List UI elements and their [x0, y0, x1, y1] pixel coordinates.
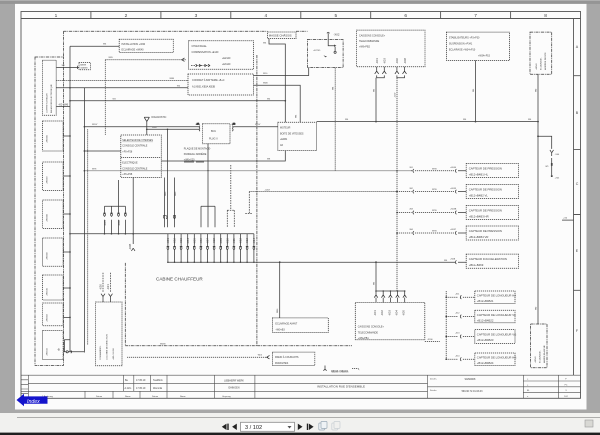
svg-text:A1.KB31.KB3A.KB3B: A1.KB31.KB3A.KB3B: [192, 86, 215, 89]
svg-text:COLONNE DE DIRECTION: COLONNE DE DIRECTION: [107, 334, 109, 360]
junction dots diagnostic: [146, 128, 168, 130]
svg-text:W7B: W7B: [432, 231, 437, 233]
svg-text:+W9+PB1: +W9+PB1: [358, 337, 370, 340]
svg-text:+E4B1: +E4B1: [280, 138, 288, 141]
svg-text:-X01: -X01: [373, 310, 377, 316]
svg-text:W7B: W7B: [432, 189, 437, 191]
svg-text:W0B: W0B: [263, 83, 268, 85]
svg-text:+W042: +W042: [535, 356, 537, 363]
main horizontal bus B: [317, 119, 538, 122]
caissons stub connectors: [374, 295, 406, 302]
box selecteur de vitesses: [121, 135, 162, 178]
connector bus upper: [70, 233, 254, 235]
svg-text:6: 6: [404, 13, 407, 19]
box chauffage-compensation +E140: [189, 41, 254, 70]
svg-text:TELECOMMANDE: TELECOMMANDE: [358, 331, 379, 334]
svg-text:AMBRE,BLANCHE: AMBRE,BLANCHE: [543, 345, 546, 363]
svg-text:CAPTEUR DE PRESSION: CAPTEUR DE PRESSION: [469, 229, 502, 233]
svg-text:INSTALLATION RUE D'ENSEMBLE: INSTALLATION RUE D'ENSEMBLE: [317, 385, 365, 389]
svg-text:-X02: -X02: [173, 238, 177, 244]
svg-text:Name: Name: [125, 396, 131, 398]
svg-text:CAPTEUR DE LONGUEUR VG: CAPTEUR DE LONGUEUR VG: [477, 333, 516, 337]
page number box: [241, 422, 295, 431]
svg-text:ECLAIRAGE-: ECLAIRAGE-: [540, 57, 543, 70]
svg-text:-X06: -X06: [395, 58, 399, 64]
svg-text:+W0409: +W0409: [47, 251, 49, 260]
next-page button: [298, 424, 303, 430]
wire W1B dashed: [56, 78, 188, 81]
svg-text:PARASITES: PARASITES: [275, 362, 289, 365]
svg-text:+W042: +W042: [536, 63, 538, 70]
region border: chassis top dash-dot bus: [64, 31, 308, 57]
svg-text:STABILISATEURS +P3+P30: STABILISATEURS +P3+P30: [449, 36, 480, 39]
svg-text:+B11+B469: +B11+B469: [469, 263, 484, 267]
wire W8 lower moteur: [161, 151, 285, 161]
svg-text:3 / 102: 3 / 102: [245, 425, 262, 431]
svg-text:+W0408: +W0408: [47, 213, 49, 222]
svg-text:-X07: -X07: [206, 238, 210, 244]
connector -X02 on +KC top: [327, 32, 340, 53]
capteur pression row 4: [397, 226, 519, 240]
svg-text:-X31: -X31: [106, 284, 110, 290]
box coffret a batterie: [188, 74, 254, 95]
last-page button: [307, 424, 314, 430]
wire W9 caissons to bus: [373, 78, 376, 122]
connector -2A bcu left: [196, 123, 200, 132]
svg-text:PLUG II: PLUG II: [209, 138, 218, 141]
connector cluster 4 stubs left of bus: [103, 180, 127, 234]
svg-text:-X05: -X05: [192, 238, 196, 244]
bottom row cell lines: [85, 391, 167, 398]
row letter band line: [573, 19, 575, 376]
svg-text:CAPTEUR DE LONGUEUR HA: CAPTEUR DE LONGUEUR HA: [477, 294, 516, 298]
title block texts: [42, 378, 569, 398]
wire diag drop to selecteur: [146, 129, 148, 135]
capteur longueur row 3: [446, 330, 516, 344]
svg-text:MOTEUR: MOTEUR: [280, 127, 291, 130]
row letters: [576, 45, 579, 333]
svg-text:-X02: -X02: [334, 33, 340, 37]
svg-text:+B12+B4B1 HL: +B12+B4B1 HL: [469, 172, 489, 176]
battery branch wire: [538, 136, 552, 149]
svg-text:-X207: -X207: [265, 189, 271, 191]
title block row lines right: [523, 380, 580, 382]
svg-text:+B12+B4B2 VL: +B12+B4B2 VL: [469, 193, 489, 197]
box eclairage arriere droite: [530, 32, 552, 74]
relay module box +W0406: [43, 121, 64, 151]
svg-text:Name: Name: [180, 396, 186, 398]
connector stubs row (14): [168, 234, 254, 262]
svg-text:WemmE: WemmE: [153, 387, 163, 390]
caissons stub header: [376, 291, 405, 295]
svg-text:MASSE CHÂSSIS: MASSE CHÂSSIS: [331, 371, 349, 374]
relay module box +W0410: [43, 275, 64, 300]
capteur pression row 3: [397, 206, 519, 220]
svg-text:+K040: +K040: [450, 167, 457, 169]
connector row labels: [166, 238, 256, 244]
svg-text:CAPTEUR D'ACCELERATION: CAPTEUR D'ACCELERATION: [469, 257, 507, 261]
svg-text:+K037: +K037: [450, 229, 457, 231]
column header band line: [21, 18, 581, 20]
svg-text:4: 4: [264, 13, 267, 19]
svg-text:-X0: -X0: [58, 102, 63, 106]
svg-text:Datum: Datum: [152, 395, 158, 398]
wire dashed from +KC down to W78: [332, 68, 335, 171]
svg-text:-X08: -X08: [403, 58, 407, 64]
box caissons console telecommande top: [357, 30, 426, 67]
svg-text:COMMANDES-: COMMANDES-: [99, 345, 102, 360]
trunk wire T2: [83, 88, 85, 353]
svg-text:BALANCIER ELECTRONIQUE: BALANCIER ELECTRONIQUE: [50, 84, 53, 113]
label W038 on region border: [160, 344, 166, 346]
lower bus junction dots: [167, 261, 377, 263]
next-view icon (disabled): [332, 421, 340, 430]
svg-text:+E3140: +E3140: [222, 63, 231, 66]
wire -X207 dashed horizontal: [249, 189, 397, 191]
commandes connector labels: [99, 284, 111, 290]
svg-text:+B12+B4B3 HR: +B12+B4B3 HR: [469, 214, 489, 218]
svg-text:W107: W107: [92, 124, 98, 126]
svg-text:3: 3: [195, 13, 198, 19]
caissons stub dots: [375, 290, 405, 292]
svg-text:FC: FC: [565, 384, 568, 386]
svg-text:CHAUFFAGE-: CHAUFFAGE-: [192, 45, 208, 48]
svg-text:-X01: -X01: [375, 58, 379, 64]
svg-text:CAPTEUR DE PRESSION: CAPTEUR DE PRESSION: [469, 209, 502, 213]
svg-text:-X03: -X03: [179, 238, 183, 244]
svg-text:+W4+SX202: +W4+SX202: [113, 347, 115, 360]
commandes top connectors: [101, 273, 113, 302]
wire eclairage avant drop: [277, 262, 280, 318]
first-page button: [222, 424, 229, 430]
svg-text:MASSE CHÂSSIS: MASSE CHÂSSIS: [269, 33, 292, 38]
connector hooks row: [167, 246, 256, 249]
svg-text:CHÂSSIS: CHÂSSIS: [80, 66, 88, 69]
svg-text:Ursprung: Ursprung: [222, 395, 231, 398]
longueur trunk dots: [445, 296, 447, 360]
svg-text:CAPTEUR DE LONGUEUR HG: CAPTEUR DE LONGUEUR HG: [477, 356, 517, 360]
masse chassis label top: [268, 32, 297, 39]
title block column lines: [28, 375, 558, 398]
wire W10 batterie to +KC: [254, 68, 309, 76]
plaque de montage caption: [184, 148, 211, 163]
svg-text:COMPENSATION +E140: COMPENSATION +E140: [192, 51, 220, 54]
wire W107: [84, 124, 199, 127]
svg-text:C: C: [576, 182, 579, 186]
svg-text:+W0410: +W0410: [47, 287, 49, 296]
svg-text:Index: Index: [27, 399, 40, 405]
svg-text:+W0406: +W0406: [47, 134, 49, 143]
svg-text:ARRIÈRE DROITE: ARRIÈRE DROITE: [544, 52, 547, 70]
svg-text:LIEBHERR WERK: LIEBHERR WERK: [224, 380, 244, 383]
box eclairage avant: [272, 318, 328, 333]
trunk wire T1: [69, 46, 71, 352]
connector -X0B drop: [128, 178, 135, 251]
svg-text:-X12: -X12: [239, 238, 243, 244]
svg-text:+P0+P28: +P0+P28: [122, 150, 133, 153]
svg-text:-X08: -X08: [212, 238, 216, 244]
svg-text:FREIN À COURANTS: FREIN À COURANTS: [275, 356, 299, 359]
box BCU PLUG II: [203, 124, 231, 144]
svg-text:1: 1: [55, 13, 58, 19]
svg-text:ECLAIRAGE-: ECLAIRAGE-: [539, 350, 542, 363]
capteur pression row 1: [409, 164, 519, 178]
wire W6 to installation: [70, 44, 119, 47]
toolbar background: [0, 413, 600, 433]
wire frein dashed with arrow: [127, 355, 270, 359]
svg-text:17.05.19: 17.05.19: [136, 387, 146, 390]
contact chain inside chauffage: [191, 64, 211, 67]
svg-text:-X06: -X06: [199, 238, 203, 244]
svg-text:+E2140: +E2140: [222, 57, 231, 60]
column ticks: [91, 12, 511, 19]
svg-text:-X30: -X30: [99, 284, 103, 290]
capteur longueur row 2: [446, 310, 516, 322]
bcu drop trio: [201, 144, 215, 227]
wire W0B upper: [254, 83, 301, 123]
svg-text:590-90.72.01.03-03: 590-90.72.01.03-03: [462, 390, 484, 393]
svg-text:ECLAIRAGE +W040: ECLAIRAGE +W040: [122, 49, 145, 52]
svg-text:7: 7: [474, 13, 477, 19]
diagnostic antenna symbol: [144, 116, 166, 130]
fuse tick battery: [545, 158, 552, 172]
wire W4: [70, 98, 286, 101]
right edge small icons: [585, 420, 593, 427]
svg-text:+W9+PB2: +W9+PB2: [359, 45, 371, 48]
svg-text:+W0407: +W0407: [47, 175, 49, 184]
prev-view icon: [319, 421, 327, 430]
svg-text:+P0+P28: +P0+P28: [122, 173, 133, 176]
relay module box +W0409: [43, 238, 64, 266]
wire stub to frame right: [562, 218, 574, 221]
wires above bus from selecteur: [165, 129, 175, 227]
box commandes colonne de direction: [96, 302, 123, 366]
svg-text:BCU: BCU: [211, 130, 216, 133]
frein masse stub: [323, 366, 348, 373]
svg-text:8: 8: [544, 13, 547, 19]
wire from masse top down: [263, 39, 285, 123]
bus junction dots: [375, 121, 539, 138]
svg-text:-X13: -X13: [245, 238, 249, 244]
svg-text:+W0403: +W0403: [47, 313, 49, 322]
svg-text:+K03B: +K03B: [450, 209, 457, 211]
svg-text:ELECTRIQUE: ELECTRIQUE: [122, 162, 138, 165]
title block row lines left: [28, 382, 427, 384]
region border cabine left: [124, 263, 126, 346]
svg-text:CAPTEUR DE PRESSION: CAPTEUR DE PRESSION: [469, 188, 502, 192]
svg-text:CONSOLE CENTRALE: CONSOLE CENTRALE: [122, 145, 148, 148]
svg-text:MASSE: MASSE: [80, 64, 87, 67]
wire W05 dashed to chauffage with arrow: [105, 57, 186, 135]
svg-text:90290008: 90290008: [465, 378, 476, 381]
capteur longueur row 1: [446, 291, 516, 303]
svg-text:-X11: -X11: [232, 238, 236, 244]
svg-text:DIAGNOSTIC: DIAGNOSTIC: [152, 116, 167, 119]
wire W78 long dashed to capteur pression: [84, 168, 411, 171]
masse chassis box left: [79, 63, 90, 70]
svg-text:-B: -B: [57, 347, 60, 351]
top window edge light line: [0, 1, 600, 4]
svg-text:Datum: Datum: [96, 395, 102, 398]
relay module box +W0403: [43, 303, 64, 326]
svg-text:SUSPENSION +P341: SUSPENSION +P341: [449, 42, 473, 45]
toolbar groove line: [17, 416, 600, 419]
svg-text:-X206: -X206: [427, 339, 433, 341]
title block top line: [21, 374, 581, 376]
top window edge dark line: [0, 0, 600, 2]
relay module box +W0408: [43, 200, 64, 228]
column numbers 1-8: [55, 13, 548, 19]
relay b7 output wire with connector: [57, 347, 84, 353]
left mini column lines: [21, 380, 28, 394]
svg-text:BOITE DE VITESSES: BOITE DE VITESSES: [280, 132, 304, 135]
svg-text:+E2745: +E2745: [313, 50, 321, 52]
svg-text:CAPTEUR DE LONGUEUR VA: CAPTEUR DE LONGUEUR VA: [477, 313, 516, 317]
masse chassis label bottom center: [331, 369, 359, 374]
wire W6 caption to masse box: [56, 65, 79, 69]
svg-text:Zeichn.: Zeichn.: [430, 379, 437, 381]
svg-text:W0B: W0B: [152, 127, 157, 129]
capteur pression row 2: [397, 185, 519, 199]
connector bus lower: [168, 261, 456, 263]
label W6 vertical near moteur: [295, 114, 297, 118]
svg-text:ECLAIRAGE AVANT: ECLAIRAGE AVANT: [275, 322, 297, 325]
relay module box +W0411: [43, 331, 64, 360]
svg-text:W107: W107: [255, 124, 261, 126]
box installation +W40: [119, 39, 173, 52]
x207 junction dots: [396, 170, 398, 234]
bottom dark window strip: [0, 433, 600, 435]
svg-text:TELECOMMANDE: TELECOMMANDE: [359, 40, 380, 43]
svg-text:2: 2: [125, 13, 128, 19]
svg-text:PLAQUE DE MONTAGE-: PLAQUE DE MONTAGE-: [184, 148, 211, 151]
connector -2B bcu right: [232, 124, 236, 132]
svg-text:CAISSONS CONSOLE+: CAISSONS CONSOLE+: [358, 326, 385, 329]
row ticks: [574, 76, 581, 291]
svg-text:INSTALLATION +W40: INSTALLATION +W40: [122, 43, 146, 46]
svg-text:W0B: W0B: [169, 78, 174, 80]
svg-text:SELECTEUR DE VITESSES: SELECTEUR DE VITESSES: [122, 139, 153, 142]
svg-text:-X06: -X06: [117, 220, 121, 226]
caissons pair brackets: [377, 75, 405, 77]
svg-text:CAPTEUR DE PRESSION: CAPTEUR DE PRESSION: [469, 167, 502, 171]
wire -X207 dashed vertical: [394, 78, 397, 291]
svg-text:-X03: -X03: [387, 310, 391, 316]
box eclairage ambre blanche: [531, 324, 547, 368]
svg-text:-X14: -X14: [252, 238, 256, 244]
svg-text:+K0B: +K0B: [450, 258, 456, 260]
svg-text:+B12+B4B4 VR: +B12+B4B4 VR: [469, 235, 489, 239]
plaque drop pair: [227, 165, 234, 227]
bus junction dots left: [69, 233, 134, 235]
svg-text:W7B: W7B: [432, 168, 437, 170]
region border: coffret a relais container: [35, 57, 64, 365]
svg-text:+B12+B4B24: +B12+B4B24: [477, 361, 494, 365]
wire W0: [56, 85, 188, 88]
svg-text:+B12+B4B23: +B12+B4B23: [477, 338, 494, 342]
svg-text:+W0411: +W0411: [47, 348, 49, 356]
svg-text:COFFRET À BATTERIE +B+C: COFFRET À BATTERIE +B+C: [192, 79, 225, 82]
svg-text:-X05: -X05: [402, 310, 406, 316]
svg-text:-X04: -X04: [186, 238, 190, 244]
svg-text:+K039: +K039: [450, 188, 457, 190]
svg-text:W6: W6: [64, 102, 69, 106]
longueur trunk dashed: [445, 291, 447, 359]
svg-text:17.05.19: 17.05.19: [136, 379, 146, 382]
svg-text:ECLAIRAGE +W34+P10: ECLAIRAGE +W34+P10: [449, 48, 476, 51]
svg-text:+W0+B3: +W0+B3: [275, 328, 285, 331]
svg-text:W7B: W7B: [432, 210, 437, 212]
wire -X0 caption to trunk: [56, 102, 70, 106]
svg-text:-X04: -X04: [395, 310, 399, 316]
svg-text:-X05: -X05: [103, 220, 107, 226]
svg-text:+B12+B4B21: +B12+B4B21: [477, 299, 494, 303]
box frein a courants parasites: [272, 352, 314, 365]
x207 drop pair: [245, 192, 252, 214]
svg-text:EHINGEN: EHINGEN: [229, 387, 240, 390]
relay stub wires to trunk: [63, 136, 70, 317]
svg-text:COFFRET À RELAIS: COFFRET À RELAIS: [46, 93, 49, 113]
svg-text:-X09: -X09: [219, 238, 223, 244]
Index navigation arrow: [17, 394, 48, 406]
capteur acceleration box: [444, 254, 519, 268]
region border cabine bottom: [125, 345, 352, 347]
wire caissons drop: [373, 262, 376, 291]
capteur longueur row 4: [446, 353, 516, 366]
label -X206: [425, 339, 440, 341]
box moteur boite de vitesses: [278, 122, 317, 150]
caissons top connectors: [375, 67, 407, 74]
svg-text:-X207: -X207: [394, 92, 396, 98]
connector -X04 battery: [550, 150, 560, 156]
region border cabine right: [256, 55, 258, 346]
caption cabine chauffeur: [156, 277, 203, 282]
svg-text:CONSOLE CENTRALE: CONSOLE CENTRALE: [122, 167, 148, 170]
cluster labels: [103, 220, 121, 226]
svg-text:5: 5: [334, 13, 337, 19]
svg-text:-X02: -X02: [380, 310, 384, 316]
svg-text:CABINE CHAUFFEUR: CABINE CHAUFFEUR: [156, 277, 203, 282]
wire diagnostic bus: [147, 127, 200, 130]
svg-text:-X03: -X03: [383, 58, 387, 64]
prev-page button: [232, 424, 237, 430]
svg-text:A.Gfm: A.Gfm: [125, 387, 132, 390]
svg-text:CAISSONS CONSOLE+: CAISSONS CONSOLE+: [359, 34, 386, 37]
svg-text:W038: W038: [160, 344, 166, 346]
dashed return wire parallel to trunk: [87, 129, 89, 345]
box caissons console bottom: [355, 302, 425, 340]
svg-text:Bl.: Bl.: [527, 390, 530, 392]
svg-text:+W34+P15: +W34+P15: [478, 54, 491, 57]
box +KC: [308, 39, 344, 67]
caption box COFFRET A RELAIS: [42, 60, 56, 115]
wire eclairage droite down: [535, 74, 538, 324]
wire selecteur feed: [84, 150, 120, 152]
svg-text:Zeichn.: Zeichn.: [430, 390, 437, 392]
trunk junction dots: [69, 87, 85, 318]
trunk bottom elbow wire: [65, 340, 71, 352]
wire stabilisateurs to bus: [473, 60, 476, 121]
connector -X05 battery: [551, 172, 560, 180]
svg-text:-X01: -X01: [166, 238, 170, 244]
svg-text:PANNEAU ARRIÈRE: PANNEAU ARRIÈRE: [184, 153, 207, 156]
svg-text:-X0B: -X0B: [128, 244, 132, 250]
svg-text:-X10: -X10: [225, 238, 229, 244]
hooks above bus: [163, 216, 176, 219]
svg-text:+B12+B4B22: +B12+B4B22: [477, 318, 494, 322]
wire bcu to moteur: [234, 124, 278, 127]
label W05 vertical pair: [165, 191, 177, 196]
